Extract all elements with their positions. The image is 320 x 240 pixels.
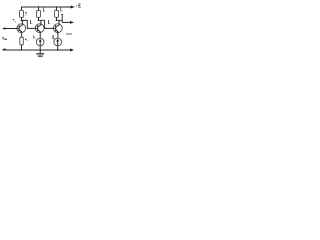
transistor Q2 xyxy=(35,20,44,38)
resistor R1 xyxy=(20,7,24,20)
ground xyxy=(37,50,44,56)
label R2 xyxy=(43,7,45,11)
label R3 xyxy=(61,8,63,12)
node rail junction RE xyxy=(21,49,22,50)
label vi xyxy=(2,37,7,40)
wire VCC top rail xyxy=(22,6,72,8)
label RE xyxy=(25,39,28,41)
label R1 xyxy=(25,12,27,16)
node J2 (R2/Q2 collector) xyxy=(38,19,40,21)
resistor R2 xyxy=(37,6,41,20)
current source I1 xyxy=(36,38,44,50)
wire output line xyxy=(62,21,70,23)
wire bottom rail xyxy=(3,49,71,51)
label Q1 xyxy=(13,19,16,23)
node J3 (R3/Q3 collector) xyxy=(56,19,58,21)
node rail junction I1 xyxy=(39,49,41,51)
label I1 xyxy=(34,36,37,40)
wire output xyxy=(57,19,63,21)
transistor Q3 xyxy=(53,20,62,38)
wire stage2 to Q3 base xyxy=(39,20,54,28)
resistor R3 xyxy=(55,6,59,20)
node bottom-left terminal arrow xyxy=(2,48,5,50)
node output arrowhead xyxy=(70,21,74,24)
resistor RE xyxy=(20,37,24,50)
node output stub tick xyxy=(61,14,63,16)
node VCC rail arrowhead xyxy=(71,6,75,9)
label +Vcc xyxy=(76,4,81,7)
label Q2 xyxy=(31,20,33,23)
current source I2 xyxy=(54,38,62,50)
wire input xyxy=(3,28,17,30)
node bottom rail arrowhead xyxy=(70,49,74,52)
wire stage1 to Q2 base xyxy=(22,20,36,28)
label I2 xyxy=(53,36,55,39)
node rail junction I2 xyxy=(57,49,59,51)
transistor Q1 xyxy=(17,21,26,38)
node input terminal arrow xyxy=(3,27,6,29)
label vout xyxy=(66,33,71,35)
label Q3 xyxy=(49,20,51,23)
wire output stub xyxy=(61,15,63,22)
node J1 (R1/Q1 collector) xyxy=(21,20,23,22)
